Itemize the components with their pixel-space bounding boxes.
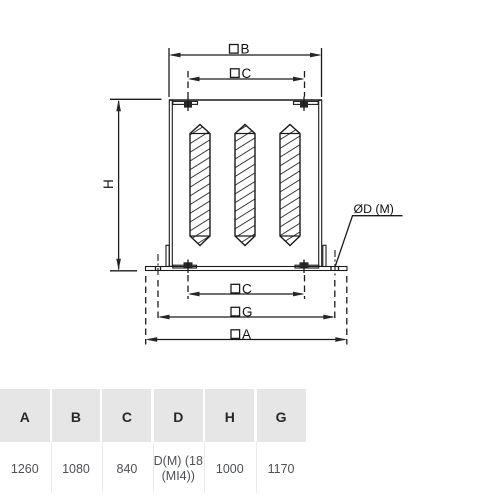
bottom right bolt <box>300 262 309 267</box>
dimension line A <box>148 339 345 341</box>
left hole <box>155 267 157 271</box>
table header cells <box>0 389 50 442</box>
dim A extension right <box>346 276 348 345</box>
dim G extension left <box>157 280 159 322</box>
svg-text:C: C <box>242 282 252 297</box>
right hole centerline <box>334 250 336 277</box>
label A <box>231 330 240 339</box>
bottom right clamp <box>295 265 319 268</box>
svg-text:A: A <box>242 327 251 342</box>
base plate <box>146 267 348 271</box>
label C bottom <box>231 284 240 293</box>
right angle bracket <box>323 245 326 266</box>
dimension line B <box>171 54 320 56</box>
right hole <box>330 267 332 271</box>
slot 1 <box>190 125 210 246</box>
svg-text:G: G <box>242 305 253 320</box>
value row separators <box>51 442 52 493</box>
H extension bottom <box>110 270 137 272</box>
body left wall <box>169 100 172 266</box>
dimension line H <box>118 101 120 270</box>
body right wall <box>319 100 322 266</box>
top right clamp <box>294 101 319 104</box>
dimension line C top <box>190 78 303 80</box>
dim A extension left <box>145 276 147 345</box>
bottom left clamp <box>173 265 197 268</box>
label C top <box>231 69 240 78</box>
label B <box>230 45 239 54</box>
left hole centerline <box>157 254 159 277</box>
svg-text:ØD (M): ØD (M) <box>354 202 394 216</box>
svg-text:B: B <box>241 42 250 57</box>
dim G extension right <box>334 280 336 322</box>
slot 3 <box>280 125 300 246</box>
H extension top <box>110 98 162 100</box>
svg-text:H: H <box>101 179 116 189</box>
dim C top extension left <box>187 71 189 97</box>
dimension line C bottom <box>190 293 303 295</box>
leader OD <box>336 216 403 266</box>
top right bolt <box>300 102 308 108</box>
top left bolt <box>184 102 192 108</box>
body top edge <box>169 99 322 101</box>
dim C bottom extension left <box>187 275 189 299</box>
dimension line G <box>160 316 333 318</box>
bottom left bolt <box>184 262 193 267</box>
dim B extension left <box>168 48 170 97</box>
top left clamp <box>173 101 198 104</box>
dim C bottom extension right <box>304 275 306 299</box>
slot 2 <box>235 125 255 246</box>
values <box>0 462 50 477</box>
left angle bracket <box>166 245 169 266</box>
header letters <box>0 410 50 425</box>
svg-text:C: C <box>242 66 252 81</box>
label G <box>231 307 240 316</box>
dim C top extension right <box>304 71 306 97</box>
dim B extension right <box>321 48 323 97</box>
